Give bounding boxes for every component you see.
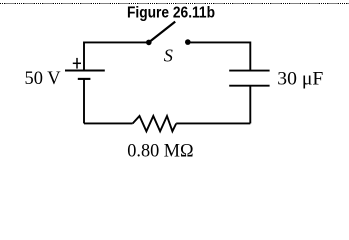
- svg-text:Figure 26.11b: Figure 26.11b: [127, 5, 215, 22]
- svg-text:50 V: 50 V: [25, 69, 62, 89]
- svg-text:30 μF: 30 μF: [277, 69, 323, 89]
- svg-text:S: S: [164, 46, 173, 66]
- svg-text:0.80 MΩ: 0.80 MΩ: [127, 142, 193, 162]
